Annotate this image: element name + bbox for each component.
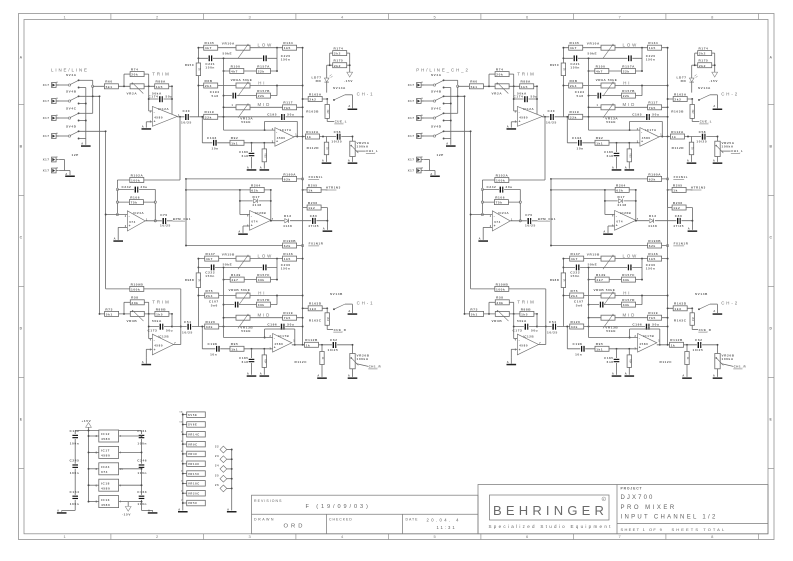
svg-text:62k: 62k — [284, 178, 291, 182]
svg-text:R157D: R157D — [257, 298, 270, 302]
capacitor C162 — [72, 434, 78, 439]
resistor R163D cue feed — [303, 307, 328, 309]
resistor R60 — [104, 84, 118, 89]
svg-text:R6B: R6B — [205, 79, 213, 83]
svg-text:4k7: 4k7 — [231, 70, 238, 74]
svg-text:R74: R74 — [131, 68, 139, 72]
svg-text:R106: R106 — [130, 196, 140, 200]
svg-text:-15V: -15V — [344, 79, 353, 83]
ground diamond rail — [227, 511, 237, 513]
resistor R112D — [326, 137, 328, 143]
svg-text:50u: 50u — [166, 328, 173, 332]
wire fx output row — [271, 220, 328, 222]
resistor R175 — [333, 63, 347, 68]
capacitor C222 — [210, 265, 215, 271]
connector pin 25 — [215, 474, 233, 483]
svg-text:50u: 50u — [287, 322, 294, 326]
resistor R157D — [257, 302, 271, 307]
svg-text:R163B: R163B — [306, 109, 319, 113]
svg-text:R100: R100 — [231, 64, 241, 68]
capacitor C246 — [139, 464, 145, 469]
svg-text:R75: R75 — [206, 289, 214, 293]
resistor R95C — [196, 63, 200, 76]
svg-text:+: + — [276, 140, 278, 144]
wire eq bus mid — [223, 58, 225, 130]
svg-text:2: 2 — [56, 82, 58, 84]
IC IC17 power box — [88, 446, 143, 458]
svg-text:5k1: 5k1 — [106, 85, 113, 89]
svg-text:FX1N1R: FX1N1R — [309, 242, 324, 246]
svg-text:50kA: 50kA — [152, 319, 162, 323]
svg-text:VR9A 50kE: VR9A 50kE — [231, 78, 253, 82]
svg-text:X17: X17 — [43, 169, 50, 173]
svg-text:1k5: 1k5 — [156, 85, 163, 89]
wire c193 drop — [201, 117, 203, 143]
wire bpf right rail — [154, 189, 156, 220]
svg-text:C62: C62 — [330, 338, 338, 342]
svg-text:R95: R95 — [231, 342, 239, 346]
svg-text:DJX700: DJX700 — [621, 495, 655, 501]
wire ic17a feedback loop — [264, 121, 299, 137]
svg-text:4: 4 — [120, 484, 122, 487]
svg-text:DATE: DATE — [406, 518, 419, 522]
potentiometer VR25A — [352, 137, 354, 142]
svg-text:13: 13 — [179, 422, 183, 424]
svg-text:CH-1: CH-1 — [357, 92, 375, 97]
svg-text:5: 5 — [150, 349, 152, 352]
svg-text:10/25: 10/25 — [160, 224, 171, 228]
svg-text:C164: C164 — [70, 490, 80, 494]
potentiometer VR9B — [236, 293, 250, 298]
ground fx — [323, 230, 333, 232]
wire eq2 bus mid — [223, 267, 225, 337]
capacitor C196 — [280, 324, 285, 330]
svg-text:R157B: R157B — [257, 89, 270, 93]
svg-text:5: 5 — [247, 224, 249, 227]
svg-text:R117: R117 — [283, 101, 293, 105]
svg-text:50kE: 50kE — [223, 263, 233, 267]
control box VR9C — [181, 441, 205, 447]
ground R93 — [260, 169, 270, 171]
svg-text:VR4C: VR4C — [188, 452, 198, 456]
resistor R94 — [263, 349, 265, 375]
svg-text:R157C: R157C — [257, 273, 270, 277]
svg-text:LOW: LOW — [258, 43, 274, 48]
capacitor C174 — [158, 96, 163, 102]
svg-text:A: A — [81, 142, 84, 146]
wire trim output row — [177, 116, 302, 118]
net CH1_R — [356, 364, 368, 367]
wire bpf output — [145, 220, 172, 222]
wire eq rowD MID — [224, 106, 303, 108]
wire psu cap rail left — [74, 431, 76, 511]
wire bpf feedback vertical — [179, 117, 181, 180]
capacitor C62 — [332, 342, 337, 348]
svg-text:10n: 10n — [210, 353, 217, 357]
svg-text:A: A — [260, 166, 263, 170]
svg-text:VR15B: VR15B — [222, 252, 235, 256]
svg-text:C70: C70 — [160, 213, 168, 217]
svg-text:2: 2 — [181, 451, 183, 453]
svg-text:D13: D13 — [284, 214, 292, 218]
resistor R163B — [326, 98, 328, 100]
svg-text:C80: C80 — [310, 214, 318, 218]
wire fx gnd stub — [326, 208, 328, 230]
svg-text:A: A — [148, 509, 151, 513]
ground R112D — [322, 162, 332, 164]
svg-text:VR15C: VR15C — [188, 472, 200, 476]
svg-text:A: A — [323, 227, 326, 231]
svg-text:1k3: 1k3 — [309, 307, 316, 311]
resistor R190B — [186, 245, 303, 247]
label patch PH/LINE_CH_2 — [412, 65, 474, 73]
ground IC26B — [238, 233, 248, 235]
svg-text:4148: 4148 — [252, 203, 261, 207]
node fx2 — [301, 244, 303, 246]
svg-text:1k2: 1k2 — [308, 206, 315, 210]
svg-text:23: 23 — [215, 454, 219, 458]
svg-text:CUE_R: CUE_R — [334, 328, 347, 332]
svg-text:DRAWN: DRAWN — [254, 518, 275, 522]
svg-text:20k: 20k — [131, 73, 138, 77]
svg-text:150n: 150n — [281, 267, 291, 271]
wire psu cap rail right — [141, 431, 143, 511]
resistor R75 — [205, 293, 219, 298]
wire trim2 feedback — [148, 314, 173, 339]
wire long feed bpf — [105, 131, 107, 289]
svg-text:1k1: 1k1 — [231, 347, 238, 351]
svg-text:SV6E: SV6E — [188, 423, 197, 427]
svg-text:LOW: LOW — [258, 254, 274, 259]
svg-text:-: - — [251, 214, 253, 218]
svg-text:OF 9: OF 9 — [649, 527, 663, 532]
svg-text:R174: R174 — [334, 47, 344, 51]
wire psu bottom gnd left — [62, 509, 75, 511]
svg-text:100k: 100k — [131, 179, 140, 183]
svg-text:50kE: 50kE — [223, 52, 233, 56]
svg-text:100n: 100n — [70, 502, 80, 506]
capacitor C80 — [311, 218, 316, 224]
svg-text:33k: 33k — [258, 278, 265, 282]
svg-text:IC24A: IC24A — [133, 211, 145, 215]
op-amp IC12A — [149, 110, 153, 112]
svg-text:CH1_R: CH1_R — [369, 365, 382, 369]
op-amp IC26B — [240, 214, 250, 216]
svg-text:D17: D17 — [253, 195, 261, 199]
svg-text:X17: X17 — [43, 134, 50, 138]
svg-text:26: 26 — [215, 483, 219, 487]
diode D17 — [240, 200, 271, 202]
svg-text:R147: R147 — [206, 252, 216, 256]
ground input bank — [85, 141, 87, 145]
svg-text:10/25: 10/25 — [181, 121, 192, 125]
svg-text:10n: 10n — [212, 147, 219, 151]
wire ic17b minus — [224, 337, 273, 339]
resistor R205 — [303, 189, 328, 191]
wire eq2 rowD MID — [224, 317, 303, 319]
svg-text:4k7: 4k7 — [205, 46, 212, 50]
svg-text:HI: HI — [258, 291, 266, 296]
svg-text:R145: R145 — [205, 41, 215, 45]
svg-text:+: + — [274, 346, 276, 350]
svg-text:8: 8 — [96, 502, 98, 504]
svg-text:ORD: ORD — [284, 523, 306, 529]
svg-text:VR3B: VR3B — [127, 319, 138, 323]
svg-text:R134: R134 — [283, 41, 293, 45]
resistor R163A cue feed — [303, 98, 328, 100]
control box VR4C — [181, 451, 205, 457]
svg-text:4: 4 — [120, 452, 122, 455]
svg-text:8: 8 — [96, 436, 98, 438]
svg-text:R102A: R102A — [131, 173, 144, 177]
svg-text:SV14A: SV14A — [333, 86, 346, 90]
svg-text:20u: 20u — [141, 185, 148, 189]
resistor R6B — [204, 83, 218, 88]
svg-text:-: - — [276, 131, 278, 135]
svg-text:2: 2 — [181, 490, 183, 492]
svg-text:C58: C58 — [334, 130, 342, 134]
svg-text:4580: 4580 — [101, 454, 110, 458]
resistor R117 — [283, 105, 297, 110]
svg-text:R190B: R190B — [283, 239, 296, 243]
svg-text:MID: MID — [258, 102, 272, 107]
svg-text:R175: R175 — [334, 59, 344, 63]
svg-text:IC12B: IC12B — [158, 335, 169, 339]
svg-text:7: 7 — [181, 461, 183, 463]
capacitor C194 — [232, 93, 237, 99]
svg-text:R93: R93 — [263, 153, 266, 158]
svg-text:22: 22 — [215, 444, 219, 448]
resistor R204 — [186, 189, 271, 191]
wire eq rowC HI — [198, 85, 302, 87]
svg-text:2k4: 2k4 — [206, 294, 213, 298]
svg-text:+: + — [129, 224, 131, 228]
svg-text:IC17A: IC17A — [280, 128, 292, 132]
svg-text:A: A — [227, 507, 230, 511]
svg-text:X17: X17 — [43, 158, 50, 162]
svg-text:R190A: R190A — [283, 172, 296, 176]
svg-text:A: A — [65, 172, 68, 176]
svg-text:C246: C246 — [137, 459, 147, 463]
capacitor C221 — [208, 55, 213, 61]
svg-text:C195: C195 — [267, 113, 277, 117]
capacitor C185 — [251, 349, 253, 375]
svg-text:100n: 100n — [137, 441, 147, 445]
svg-text:-: - — [154, 110, 156, 114]
svg-text:A: A — [348, 104, 351, 108]
op-amp IC24A — [106, 214, 128, 216]
wire diamond rail — [231, 450, 233, 511]
wire eq2 rowC2 — [224, 304, 278, 306]
logo BEHRINGER box — [490, 495, 610, 520]
svg-text:50kE: 50kE — [241, 120, 251, 124]
svg-text:6n8: 6n8 — [242, 360, 249, 364]
ground VR25A — [348, 162, 358, 164]
svg-text:4580: 4580 — [101, 437, 110, 441]
capacitor C58 — [336, 134, 341, 140]
ground IC12A — [142, 128, 152, 130]
svg-text:100k: 100k — [131, 287, 140, 291]
svg-text:25: 25 — [215, 474, 219, 478]
resistor R73 — [105, 311, 119, 316]
resistor R139 — [230, 277, 244, 282]
svg-text:R112D: R112D — [307, 146, 320, 150]
svg-text:50kE: 50kE — [241, 329, 251, 333]
svg-text:100n: 100n — [137, 502, 147, 506]
IC IC13 power box — [88, 496, 143, 508]
ground IC24A — [113, 240, 123, 242]
svg-text:A: A — [142, 360, 145, 364]
svg-text:50u: 50u — [287, 113, 294, 117]
connector pin 22 — [215, 444, 233, 453]
svg-text:R60: R60 — [105, 80, 113, 84]
channel 2 copy (right half, PH/LINE_CH_2) — [408, 41, 747, 379]
svg-text:A: A — [178, 507, 181, 511]
resistor R119B — [283, 315, 297, 320]
svg-text:D: D — [20, 326, 23, 330]
svg-text:A: A — [769, 55, 772, 59]
capacitor C164 — [72, 495, 78, 500]
svg-text:VR9C: VR9C — [188, 442, 198, 446]
wire trim2 output — [174, 344, 181, 346]
wire eq2 left bus — [197, 259, 199, 327]
wire fx left rail — [185, 179, 187, 246]
ground SV14A — [348, 109, 358, 111]
svg-text:2k2: 2k2 — [334, 64, 341, 68]
wire c198 drop — [201, 327, 203, 349]
resistor R145 — [204, 45, 218, 50]
svg-text:R146: R146 — [283, 252, 293, 256]
control box SV6E — [179, 422, 205, 428]
wire eq2 rowB2 — [224, 279, 278, 281]
svg-text:Specialized Studio Equipment: Specialized Studio Equipment — [489, 524, 613, 529]
net CH1_L — [356, 150, 365, 152]
resistor R190A — [186, 178, 303, 180]
capacitor C220 — [262, 55, 267, 61]
svg-text:12P: 12P — [72, 153, 79, 157]
wire control column rail — [182, 413, 184, 511]
svg-text:CUE_L: CUE_L — [335, 120, 348, 124]
svg-text:1k: 1k — [307, 135, 312, 139]
wire eq rowB2 — [224, 70, 278, 72]
svg-text:+: + — [154, 348, 156, 352]
ground control column — [178, 511, 188, 513]
svg-text:75k: 75k — [131, 201, 138, 205]
svg-text:CHECKED: CHECKED — [329, 518, 353, 522]
svg-text:MID: MID — [258, 313, 272, 318]
capacitor C193 — [212, 140, 217, 146]
svg-text:REVISIONS: REVISIONS — [254, 499, 283, 503]
op-amp IC12B — [149, 338, 153, 340]
capacitor C173 — [159, 324, 164, 330]
power -15V symbol — [127, 502, 129, 507]
svg-text:IC17: IC17 — [101, 449, 110, 453]
svg-text:LINE/LINE: LINE/LINE — [51, 68, 89, 73]
svg-text:4580: 4580 — [101, 486, 110, 490]
svg-text:R95C: R95C — [185, 63, 195, 67]
svg-text:4: 4 — [120, 501, 122, 504]
capacitor C163 — [139, 495, 145, 500]
svg-text:C173: C173 — [148, 328, 158, 332]
svg-text:62k: 62k — [251, 189, 258, 193]
capacitor C107 — [234, 302, 239, 308]
svg-text:SV4A: SV4A — [66, 73, 77, 77]
svg-text:VR9B 50kE: VR9B 50kE — [229, 288, 251, 292]
svg-text:R98D: R98D — [185, 278, 195, 282]
svg-text:A: A — [247, 372, 250, 376]
resistor R102A — [117, 179, 180, 181]
svg-text:5k1: 5k1 — [106, 312, 113, 316]
potentiometer VR10A LOW — [236, 45, 250, 50]
svg-text:BEHRINGER: BEHRINGER — [493, 503, 608, 518]
svg-text:R58: R58 — [131, 296, 139, 300]
svg-text:F (19/09/03): F (19/09/03) — [306, 504, 371, 510]
svg-text:2k2: 2k2 — [326, 110, 329, 115]
svg-text:7: 7 — [181, 500, 183, 502]
svg-text:22k: 22k — [258, 94, 265, 98]
svg-text:R112A: R112A — [306, 130, 319, 134]
svg-text:SV14B: SV14B — [330, 292, 343, 296]
capacitor C195 — [280, 114, 285, 120]
wire trim2 input row — [100, 313, 173, 315]
svg-text:A: A — [348, 159, 351, 163]
potentiometer VR9A — [236, 83, 250, 88]
svg-text:A: A — [247, 166, 250, 170]
capacitor C186 — [251, 143, 253, 169]
resistor R100 — [230, 69, 244, 74]
svg-text:7k5: 7k5 — [284, 316, 291, 320]
resistor R147 — [205, 256, 219, 261]
svg-text:BPM_CH1: BPM_CH1 — [173, 217, 191, 221]
svg-text:10/25: 10/25 — [331, 140, 342, 144]
svg-text:IC17B: IC17B — [278, 334, 289, 338]
svg-text:8: 8 — [96, 453, 98, 455]
svg-text:E: E — [20, 417, 23, 421]
svg-text:150n: 150n — [205, 65, 215, 69]
svg-text:4: 4 — [120, 435, 122, 438]
svg-text:R205: R205 — [308, 183, 318, 187]
logo registered mark — [602, 497, 606, 501]
svg-text:VR19C: VR19C — [188, 462, 200, 466]
svg-text:11:31: 11:31 — [437, 525, 457, 530]
svg-text:VR10A: VR10A — [222, 41, 235, 45]
potentiometer VR13A MID — [236, 105, 250, 110]
capacitor C198 — [215, 346, 220, 352]
wire psu bottom gnd right — [142, 509, 153, 511]
title block frame — [478, 485, 768, 534]
resistor R112A — [306, 134, 320, 139]
resistor R120 — [205, 324, 219, 329]
svg-text:100kA: 100kA — [357, 357, 369, 361]
capacitor C40 — [184, 114, 189, 120]
svg-text:1: 1 — [293, 340, 295, 343]
svg-text:1k5: 1k5 — [284, 46, 291, 50]
svg-text:INPUT CHANNEL 1/2: INPUT CHANNEL 1/2 — [621, 515, 718, 521]
svg-text:A: A — [260, 372, 263, 376]
svg-text:R157A: R157A — [257, 64, 270, 68]
svg-text:2: 2 — [181, 471, 183, 473]
svg-text:R204: R204 — [251, 183, 261, 187]
svg-text:2: 2 — [181, 431, 183, 433]
svg-text:+: + — [251, 224, 253, 228]
svg-text:-15V: -15V — [122, 513, 131, 517]
capacitor C161 — [139, 434, 145, 439]
capacitor C245 — [72, 464, 78, 469]
wire eq2 rowB — [198, 266, 277, 268]
svg-text:PH/LINE_CH_2: PH/LINE_CH_2 — [416, 68, 470, 73]
svg-text:A: A — [348, 309, 351, 313]
svg-text:IC24: IC24 — [101, 465, 110, 469]
